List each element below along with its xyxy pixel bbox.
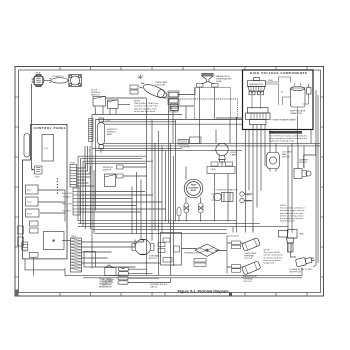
- wire: hv feed horizontal: [216, 117, 243, 119]
- wire: capacitor drop: [297, 116, 299, 144]
- border zone tick marks bottom: [60, 293, 307, 297]
- svg-text:SWITCH: SWITCH: [103, 170, 112, 172]
- power cord strain relief (T assembly): [279, 230, 298, 253]
- svg-text:The heater (MTF): The heater (MTF): [264, 251, 281, 254]
- svg-text:HIGH VOLTAGE: HIGH VOLTAGE: [290, 110, 306, 113]
- svg-text:MAGNETRON: MAGNETRON: [250, 83, 264, 86]
- wire: mid band 2: [104, 145, 320, 147]
- svg-text:on the stop light switch.: on the stop light switch.: [134, 110, 156, 113]
- svg-text:ASSY: ASSY: [107, 133, 113, 136]
- wire: riser x152: [151, 120, 153, 241]
- wire: power cord feeds: [288, 143, 292, 233]
- high voltage capacitor: [291, 84, 306, 108]
- HV wiring inside box: [252, 77, 309, 115]
- relay RY-4 small: [30, 221, 39, 226]
- relay RY-2: [26, 197, 39, 206]
- svg-text:F.L.: F.L.: [281, 92, 285, 94]
- key panel ribbon (left rounded): [24, 134, 30, 158]
- lamp mounting box: [207, 167, 235, 174]
- svg-text:MOTOR: MOTOR: [149, 258, 157, 260]
- border inner frame: [19, 70, 321, 293]
- high voltage components box: [243, 70, 314, 130]
- wire: bottom long bus: [65, 275, 302, 277]
- svg-text:MOTOR: MOTOR: [299, 162, 307, 164]
- interlock relay connector cluster: [178, 137, 201, 144]
- magnetron MG: [248, 78, 266, 95]
- svg-text:MAGNETRON: MAGNETRON: [216, 75, 230, 78]
- IC-1 chip: [42, 135, 54, 162]
- power transformer: [246, 108, 271, 125]
- svg-text:MAGNETRON: MAGNETRON: [243, 275, 257, 278]
- connector CN-E hatched header: [71, 238, 82, 272]
- wire: turntable bottom link: [114, 269, 125, 276]
- relay RY-5 small: [30, 228, 39, 233]
- wire: bottom bus 2: [78, 223, 260, 225]
- wire: oven box drops: [233, 227, 253, 232]
- convection motor terminals: [240, 192, 244, 203]
- high voltage diode: [307, 84, 312, 98]
- wire: triac drop: [172, 111, 174, 144]
- caption part-number micro text: [150, 284, 168, 289]
- svg-text:opposite side. Also, both: opposite side. Also, both: [134, 107, 157, 110]
- svg-text:WITH PLUG: WITH PLUG: [290, 271, 302, 273]
- svg-text:NOTE:: NOTE:: [270, 132, 277, 134]
- wire: temp fuse drop right: [214, 87, 216, 119]
- box right of CN-E: [84, 252, 96, 268]
- svg-text:HIGH VOLTAGE COMPONENTS: HIGH VOLTAGE COMPONENTS: [250, 71, 307, 75]
- wire: heater top: [185, 167, 187, 180]
- svg-text:CN-F: CN-F: [35, 177, 41, 179]
- thermal cutout (magnetron) rotated: [242, 261, 261, 275]
- svg-text:The STYLE line must be confirm: The STYLE line must be confirmed to the: [269, 134, 308, 137]
- wire: monitor switch stubs: [123, 167, 147, 176]
- svg-text:FIL LEADS: FIL LEADS: [168, 111, 179, 114]
- wire: CN-E riser links: [135, 239, 144, 247]
- wire: junction node: [236, 117, 238, 119]
- svg-text:CAV-16: CAV-16: [150, 286, 158, 289]
- wire: bottom bus 5: [83, 277, 302, 279]
- connector CN-G (stacked pair): [130, 85, 138, 94]
- svg-text:CN-E: CN-E: [71, 236, 77, 238]
- damper drive motor: [294, 169, 311, 179]
- wire: riser x158.5: [158, 131, 160, 275]
- svg-text:GRY: GRY: [246, 195, 251, 197]
- wire: thermistor link: [182, 249, 227, 251]
- svg-text:CN-B: CN-B: [70, 163, 76, 165]
- cooling fan motor: [267, 153, 280, 172]
- wire: lamp to triac: [163, 97, 168, 99]
- svg-text:CONTROL PANEL: CONTROL PANEL: [34, 126, 67, 130]
- door sensing switch body: [93, 96, 106, 109]
- wire: bus y121.5: [101, 121, 176, 123]
- wire: bottom bus 4: [92, 228, 227, 230]
- wire: riser x175.5: [175, 120, 177, 222]
- border zone tick marks right: [320, 97, 323, 277]
- oven cavity outline: [195, 88, 231, 120]
- wire: buzzer link: [62, 240, 71, 242]
- heater terminal capsule right: [199, 203, 204, 213]
- ribbon cable (panel to chassis): [89, 119, 94, 142]
- svg-text:wire be connected to: wire be connected to: [264, 254, 284, 257]
- wire: riser x162: [161, 146, 163, 233]
- lamp socket terminal stack: [169, 92, 178, 110]
- border corner dark mark bottom-left: [15, 290, 19, 297]
- wire: CN-C fanout: [80, 192, 166, 213]
- wire: heating circle bottom link: [179, 213, 201, 222]
- wire: control panel feeds left: [38, 190, 65, 222]
- svg-text:HEAT: HEAT: [191, 184, 197, 187]
- svg-text:THERMISTOR: THERMISTOR: [184, 253, 198, 255]
- bottom-left latch switch: [105, 265, 116, 276]
- svg-text:CUTOUT: CUTOUT: [243, 281, 252, 283]
- border zone tick marks top: [60, 67, 307, 71]
- svg-text:CUTOUT: CUTOUT: [244, 258, 253, 260]
- svg-text:CAPACITOR: CAPACITOR: [290, 112, 302, 115]
- wire: left riser x83: [82, 161, 84, 226]
- svg-text:application mounting string.: application mounting string.: [269, 140, 295, 143]
- wire: switch to lamp: [106, 97, 146, 99]
- svg-text:ORG: ORG: [246, 201, 251, 203]
- wire: latch switch fanout: [128, 269, 171, 282]
- wire: bottom right drops: [292, 233, 302, 276]
- wire: riser x230: [229, 120, 231, 144]
- cutout group frame line: [226, 236, 228, 274]
- wire: left riser x94: [93, 170, 95, 234]
- connector CN-A (top-left plug): [32, 74, 44, 86]
- svg-text:GRN: GRN: [299, 234, 304, 236]
- svg-text:CN-D: CN-D: [23, 251, 29, 253]
- connector CN-C pin header: [73, 188, 80, 215]
- heater terminal capsule left: [184, 203, 189, 213]
- svg-text:POWER TRANSFORMER: POWER TRANSFORMER: [272, 119, 297, 122]
- wire: cooling motor feed: [270, 130, 276, 153]
- wire: hv box drop left: [245, 130, 247, 233]
- wire: lamp bulb top feed: [215, 130, 217, 144]
- oven lamp and socket (diagonal oval): [138, 81, 168, 101]
- svg-text:SWITCH: SWITCH: [91, 95, 100, 97]
- wire: plug elbow: [291, 252, 297, 257]
- triac box 3: [170, 106, 179, 111]
- thermistor assembly box: [161, 233, 182, 266]
- border zone tick marks left: [15, 97, 19, 277]
- wire: damper feed: [298, 143, 304, 168]
- door sensing switch label: [91, 90, 101, 97]
- wire: riser x168.5: [168, 98, 170, 223]
- interlock latch switch (oval body): [50, 78, 69, 83]
- pin dots column: [57, 178, 58, 193]
- wire: CN-B pin stubs: [77, 177, 95, 186]
- svg-text:THERMAL: THERMAL: [244, 254, 255, 257]
- wire: lamp base drop: [221, 162, 223, 167]
- wire: riser x170.5: [170, 143, 172, 275]
- thermal cutout (oven) rotated: [242, 238, 261, 252]
- border outer frame: [15, 67, 324, 297]
- buzzer / transformer square: [44, 232, 65, 250]
- lamp socket connector boxes: [211, 162, 233, 166]
- wire: switch lower run: [118, 104, 130, 106]
- wire: enclosure left vertical: [91, 115, 93, 269]
- wire: hv box drop mid: [248, 130, 250, 191]
- svg-text:RED: RED: [269, 80, 274, 82]
- svg-text:supply cord.: supply cord.: [264, 262, 276, 265]
- wire: lamp box drop: [215, 174, 229, 222]
- svg-text:RT SWITCH: RT SWITCH: [52, 76, 64, 78]
- svg-text:CONVECTION MOTOR: CONVECTION MOTOR: [216, 190, 239, 192]
- wire: bottom bus 1: [78, 220, 236, 222]
- turntable motor: [132, 239, 154, 255]
- thermistor diamond: [195, 244, 219, 256]
- wire: bottom bus 5: [95, 233, 227, 235]
- small ladder connector (panel bottom-left): [22, 242, 28, 250]
- wire: bottom bus risers from CN-B: [77, 146, 91, 174]
- wire: riser x173.5: [173, 156, 175, 266]
- connector CN below temp fuse right: [212, 84, 219, 88]
- wire: riser x155: [154, 143, 156, 230]
- turntable terminal boxes: [158, 243, 165, 253]
- svg-text:P(L) COM: P(L) COM: [62, 193, 72, 195]
- wire: CN-D drop: [25, 257, 65, 275]
- wire: sensor feed vertical: [95, 120, 97, 211]
- secondary interlock switch: [108, 100, 119, 109]
- svg-text:MOTOR: MOTOR: [282, 157, 290, 159]
- triac box 2: [168, 99, 179, 105]
- wire: socket top link: [178, 88, 195, 95]
- note text block right middle: [280, 205, 305, 223]
- wire: riser x165.5: [165, 151, 167, 222]
- wire: left riser x86: [85, 164, 87, 230]
- wire: mid band 3: [92, 147, 182, 149]
- connector CN-B pin header: [70, 165, 77, 188]
- svg-text:LAMP: LAMP: [231, 154, 237, 157]
- wire: heater drop right: [200, 198, 202, 204]
- wire CN-A to latch switch: [44, 80, 51, 82]
- wire: top bus horizontal: [96, 119, 243, 121]
- border dark zone mark bottom x230: [229, 293, 232, 297]
- wire: left riser x80.5: [80, 159, 82, 224]
- wire: cutout links: [227, 243, 243, 267]
- svg-text:mark on the power: mark on the power: [264, 259, 282, 262]
- wire: bus y124: [104, 123, 243, 125]
- wire: bottom-left link: [64, 268, 66, 276]
- heating element (double circle): [184, 179, 203, 198]
- thermistor box inner parts: [163, 238, 180, 262]
- sparkle connection mark: [138, 75, 143, 79]
- humidity sensor capsule: [98, 118, 105, 149]
- wire: convection terminals link: [244, 194, 252, 201]
- svg-text:ASSY: ASSY: [191, 189, 197, 192]
- svg-text:The assembly controller of: The assembly controller of: [280, 207, 305, 210]
- wire: door switch drops: [96, 109, 117, 115]
- wire: riser x146.5: [146, 98, 148, 275]
- wire: mid risers x132 x136 x141: [132, 172, 141, 239]
- note text block bottom right: [264, 250, 284, 265]
- svg-text:power transformer terminal mar: power transformer terminal marked in the: [269, 137, 308, 140]
- wire color labels beside CN-C: [62, 193, 72, 213]
- wire: socket dashed run: [178, 99, 238, 118]
- wire: left riser x90.5: [90, 166, 92, 229]
- cutout 1 terminal boxes: [232, 241, 241, 249]
- svg-text:SWITCH: SWITCH: [102, 285, 111, 287]
- svg-text:P(L) N.O.: P(L) N.O.: [63, 210, 72, 212]
- svg-text:CN-A: CN-A: [35, 72, 41, 75]
- wire: mid band 4: [95, 150, 242, 152]
- small terminal capsule far left: [177, 208, 181, 217]
- svg-text:SECONDARY: SECONDARY: [102, 279, 116, 282]
- wire: temp fuse drop left: [199, 87, 201, 143]
- svg-text:& SOCKET: & SOCKET: [155, 85, 166, 87]
- triac box 1: [168, 91, 179, 97]
- relay RY-3: [26, 209, 40, 217]
- legend micro text block bottom-left: [99, 279, 113, 289]
- control panel box (L-shaped): [23, 125, 68, 259]
- wire: left riser x78: [77, 156, 79, 221]
- wire: damper feed bend: [304, 143, 316, 167]
- wire: enclosure top horizontal: [92, 114, 182, 116]
- note text block (center): [134, 101, 159, 113]
- wire: transformer leads down: [253, 125, 265, 232]
- svg-text:CN-K: CN-K: [211, 169, 217, 171]
- power supply cord plug: [295, 256, 315, 267]
- monitor switch label: [103, 167, 113, 172]
- connector CN-F (inside panel, lower left): [35, 166, 43, 174]
- wire: mid band 1: [104, 142, 320, 144]
- svg-text:FUSE: FUSE: [216, 81, 222, 83]
- monitor switch terminal boxes: [117, 165, 124, 178]
- svg-text:P(L) COM: P(L) COM: [62, 204, 72, 206]
- fan blower (square with corner holes): [69, 75, 82, 87]
- oven lamp bulb: [216, 143, 228, 162]
- svg-text:FAN: FAN: [282, 153, 287, 156]
- note block (inverted style) below HV box: [269, 131, 308, 143]
- relay RY-1: [26, 185, 39, 194]
- arrow into CN-F: [32, 169, 35, 171]
- cutout 2 terminal boxes: [232, 265, 241, 273]
- svg-text:Figure 5-1. Pictorial Diagram: Figure 5-1. Pictorial Diagram: [177, 288, 229, 293]
- wire: socket stack to hv: [178, 106, 194, 119]
- svg-text:the terminal with the: the terminal with the: [264, 256, 283, 259]
- tiny boxes near left border: [18, 226, 24, 246]
- wire: bottom bus 3: [78, 225, 288, 227]
- wire: heater drop left: [185, 198, 187, 204]
- connector CN-D: [29, 252, 38, 257]
- connector CN below temp fuse left: [197, 84, 204, 88]
- monitor switch body: [105, 174, 116, 187]
- svg-text:TURNTABLE: TURNTABLE: [149, 255, 162, 258]
- svg-text:TEMPERATURE: TEMPERATURE: [216, 78, 232, 81]
- svg-text:P(L) N.O.: P(L) N.O.: [63, 196, 72, 198]
- wire: riser x236.5: [236, 118, 238, 233]
- wire CN-A down to control panel: [31, 84, 33, 169]
- latch switch connector boxes: [118, 268, 129, 285]
- wire: CN-B fanout rows right: [78, 156, 153, 164]
- wire: sensor bottom stub: [100, 149, 102, 153]
- wire: CN-E fanout: [82, 242, 161, 267]
- magnetron temperature fuse (funnel): [202, 73, 214, 84]
- wire: right risers: [311, 90, 318, 267]
